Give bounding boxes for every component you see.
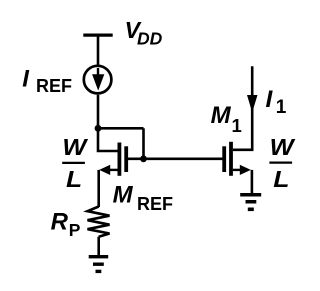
transistor M1 gate bar [222,146,226,172]
wire M1 source down to ground [251,170,254,194]
M1 drain lead [233,149,254,152]
current source arrow [92,68,104,91]
wire current source to node [97,95,100,129]
label W/L (right) [269,135,295,193]
transistor MREF channel bar [118,143,122,176]
svg-text:REF: REF [36,76,72,96]
svg-text:M: M [211,102,232,129]
wire resistor to ground [97,237,100,256]
svg-text:P: P [69,220,81,240]
MREF source arrow [99,165,110,175]
wire MREF source down to resistor [97,170,100,207]
node dot (drain/gate node) [95,125,102,132]
wire I1 top [251,66,254,150]
label W/L (left) [62,135,88,193]
label MREF [113,182,173,214]
transistor M1 channel bar [229,142,233,176]
svg-text:L: L [273,168,289,193]
svg-text:DD: DD [137,29,163,49]
svg-text:I: I [266,86,274,113]
ground (below M1) [240,193,261,211]
label RP [51,209,81,241]
svg-text:REF: REF [137,194,173,214]
junction dot on gate rail [140,155,147,162]
svg-text:W: W [62,135,88,161]
wire down to gate rail [142,128,145,159]
gate wire MREF gate to M1 gate [127,158,224,161]
svg-text:L: L [66,168,82,193]
svg-text:1: 1 [232,115,242,136]
I1 current arrow [247,95,258,113]
label I1 [266,86,287,118]
label VDD [125,17,163,48]
resistor RP zigzag [88,207,110,237]
transistor MREF gate bar [124,146,128,172]
svg-text:1: 1 [276,97,287,118]
MREF source lead [108,169,118,171]
MREF drain wire from node [98,128,118,151]
svg-text:W: W [270,135,296,161]
svg-text:M: M [113,182,134,209]
wire node to right [98,127,144,130]
M1 source arrow [240,165,251,175]
ground (below RP) [89,255,109,273]
M1 source lead [233,169,241,171]
VDD supply bar [83,33,112,36]
wire VDD bar to current source [97,35,100,65]
label IREF [22,65,72,96]
current source IREF circle [84,66,112,94]
label M1 [211,102,242,136]
svg-text:R: R [51,209,69,236]
